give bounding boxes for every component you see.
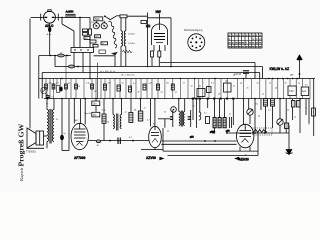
svg-text:Dr: Dr (60, 51, 63, 54)
svg-text:50: 50 (193, 106, 195, 108)
svg-text:1M: 1M (134, 109, 137, 111)
svg-text:0,1: 0,1 (257, 82, 260, 84)
svg-text:AF7: AF7 (75, 119, 78, 122)
svg-text:µ2: µ2 (125, 112, 127, 114)
svg-text:1k: 1k (262, 94, 264, 96)
svg-text:50: 50 (233, 86, 235, 88)
svg-text:50: 50 (107, 122, 109, 124)
svg-text:5k: 5k (138, 92, 140, 94)
svg-text:0,5: 0,5 (305, 85, 308, 87)
svg-text:NW: NW (156, 10, 161, 14)
svg-text:W: W (56, 119, 58, 121)
svg-text:0,1: 0,1 (211, 82, 214, 84)
svg-text:1M: 1M (94, 91, 97, 93)
svg-text:4µF: 4µF (302, 90, 307, 93)
svg-text:µ4: µ4 (68, 83, 70, 85)
svg-text:Progreß GW: Progreß GW (17, 123, 26, 166)
svg-text:µ4: µ4 (167, 131, 169, 133)
svg-text:Jd2: Jd2 (225, 81, 228, 83)
svg-text:Jd: Jd (229, 114, 231, 116)
svg-text:µw: µw (290, 74, 293, 77)
svg-text:µ4: µ4 (240, 82, 242, 84)
svg-text:0,1: 0,1 (147, 120, 150, 122)
svg-text:AF7060: AF7060 (74, 156, 86, 160)
svg-text:74Ω: 74Ω (289, 90, 294, 93)
svg-text:Jd1: Jd1 (198, 86, 201, 88)
svg-text:Kapsch: Kapsch (19, 167, 24, 181)
svg-text:3,n: 3,n (102, 43, 105, 45)
svg-text:KW,LW u. AZ: KW,LW u. AZ (270, 67, 290, 71)
svg-text:A-46: A-46 (47, 33, 52, 36)
svg-text:1n: 1n (183, 82, 185, 84)
svg-text:µ50: µ50 (49, 83, 52, 85)
svg-text:1kΩ: 1kΩ (95, 36, 99, 38)
svg-text:0,1: 0,1 (133, 83, 136, 85)
svg-text:Allt.O: Allt.O (45, 24, 54, 28)
svg-text:50: 50 (78, 86, 80, 88)
svg-text:10n: 10n (108, 82, 111, 84)
svg-text:50: 50 (285, 82, 287, 84)
svg-text:5n: 5n (269, 82, 271, 84)
svg-text:10: 10 (191, 86, 193, 88)
svg-text:→10 W: →10 W (234, 74, 242, 76)
svg-text:Chen20: Chen20 (84, 113, 92, 115)
svg-text:1k: 1k (305, 108, 307, 110)
svg-text:AEH30: AEH30 (239, 158, 250, 162)
svg-text:25n: 25n (166, 82, 169, 84)
svg-text:Ant500: Ant500 (66, 11, 75, 14)
svg-text:TY000/01: TY000/01 (26, 151, 37, 153)
svg-text:µ2: µ2 (294, 117, 296, 119)
svg-text:Rohrbefestigung: Rohrbefestigung (184, 29, 203, 32)
svg-text:6,3: 6,3 (129, 137, 132, 139)
svg-text:5k: 5k (164, 112, 166, 114)
svg-text:400: 400 (85, 38, 88, 40)
svg-text:10n: 10n (93, 103, 98, 106)
svg-text:µ8: µ8 (275, 88, 277, 90)
svg-text:JB. n. JBw+Ow: JB. n. JBw+Ow (121, 74, 135, 76)
svg-text:500: 500 (95, 17, 100, 21)
svg-text:0,1: 0,1 (204, 113, 207, 115)
svg-text:25n: 25n (255, 104, 258, 106)
svg-text:µ2: µ2 (175, 92, 177, 94)
svg-text:25: 25 (144, 108, 146, 110)
svg-text:0,1: 0,1 (268, 110, 271, 112)
svg-text:25: 25 (308, 124, 310, 126)
svg-text:1,0kΩm: 1,0kΩm (128, 43, 135, 45)
svg-text:W. n. Ww. 10. 4µ: W. n. Ww. 10. 4µ (100, 71, 116, 73)
svg-text:50: 50 (287, 110, 289, 112)
svg-text:50: 50 (122, 82, 124, 84)
svg-text:25: 25 (247, 88, 249, 90)
svg-text:0,1: 0,1 (161, 92, 164, 94)
svg-text:µ8: µ8 (258, 116, 260, 118)
svg-text:AZV60: AZV60 (146, 156, 156, 160)
svg-text:0,1: 0,1 (56, 83, 59, 85)
svg-text:µ10: µ10 (149, 82, 152, 84)
svg-text:1,0kΩm: 1,0kΩm (128, 34, 135, 36)
